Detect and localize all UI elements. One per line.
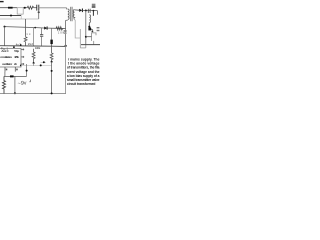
resistor R6 vertical bottom-left (3, 76, 6, 93)
label text mid under rail D (13, 46, 15, 48)
paragraph text block (67, 58, 100, 86)
IC pin bottom 2 (14, 67, 16, 72)
resistor R2 (56, 27, 63, 30)
svg-text:470k: 470k (14, 55, 19, 59)
node dot under R4 (33, 62, 35, 64)
svg-text:modulator u: modulator u (0, 55, 12, 59)
wire top right rail (82, 9, 97, 11)
wire step vertical x80 (79, 29, 81, 48)
wire transformer primary bottom down (66, 19, 68, 21)
transformer T1 secondary winding (73, 10, 74, 20)
wire step bottom (80, 47, 86, 49)
capacitor C1 (36, 5, 38, 11)
capacitor C2 vertical (41, 28, 43, 34)
node corner dot bottom (51, 92, 53, 94)
wire x93 drop (92, 11, 94, 16)
resistor R5 vertical (50, 46, 53, 61)
svg-text:circuit transformed: circuit transformed (67, 82, 96, 86)
node dot on rail B (10, 15, 12, 17)
wire rail C corner up (63, 27, 66, 29)
node dot on IC edge (20, 65, 22, 67)
wire rail A middle (23, 7, 27, 9)
IC pin right 1 (21, 48, 24, 50)
node dot under R5 (51, 61, 53, 63)
wire faint rail (0, 18, 39, 20)
input terminal stub top-left (0, 1, 4, 3)
wire rail A drop into transformer (67, 8, 68, 9)
relay K1 gray box (92, 4, 96, 8)
wire transformer secondary top right (75, 9, 79, 11)
node dot x40 (40, 64, 42, 66)
corner mark (29, 80, 30, 82)
node dot small (20, 44, 22, 46)
node dot x43 with stub (41, 61, 47, 63)
svg-text:100k: 100k (35, 46, 41, 50)
resistor R1 (27, 6, 34, 9)
wire transformer secondary bottom down (75, 20, 81, 38)
svg-text:Ant. C: Ant. C (1, 49, 9, 53)
wire x51 down to bottom rail (51, 62, 53, 94)
node dot on rail C (34, 27, 36, 29)
output jack J1 (92, 33, 96, 41)
node dot below C1 (38, 11, 40, 13)
diode D2 (79, 9, 82, 12)
node dot above Q1 (88, 26, 90, 28)
wire right ground rail (81, 44, 100, 46)
wire battery feed line (4, 72, 6, 77)
node junction dot (24, 7, 26, 9)
IC pin bottom 1 (4, 67, 6, 72)
wire rail B (0, 15, 21, 17)
arrow mark on rail A (8, 7, 13, 9)
transformer T1 primary winding (68, 9, 69, 19)
diode D1 (44, 27, 47, 30)
wire C1 node down (38, 11, 40, 19)
node dot x51 y71 (51, 70, 53, 72)
wire vertical x15 (14, 76, 16, 93)
wire rail A right to transformer (39, 7, 67, 9)
wire bottom rail (0, 93, 66, 95)
resistor R4 vertical (32, 49, 35, 62)
IC pin right 3 (21, 63, 24, 65)
wire x97 drop (96, 11, 98, 15)
wire to output jack (86, 36, 92, 38)
svg-text:1k: 1k (26, 32, 31, 36)
arrow mark on feed line (10, 75, 14, 77)
wire rail D (ground mid rail) (0, 45, 66, 48)
node dot rail C left end (4, 26, 6, 28)
wire vertical x66 transformer to rail D (65, 20, 67, 46)
node dot x66 on rail D (65, 45, 67, 47)
capacitor C4 plates (87, 9, 89, 13)
wire long vertical x86 (85, 11, 87, 45)
wire rail C (5, 27, 64, 29)
IC pin right 2 (21, 56, 24, 58)
svg-text:oscillator: oscillator (2, 62, 13, 66)
node dot x26 (26, 70, 28, 72)
resistor R3 vertical (24, 19, 27, 46)
node dot x15 bottom (14, 92, 16, 94)
svg-text:2k2: 2k2 (28, 42, 34, 46)
svg-text:~9v: ~9v (18, 80, 28, 87)
wire vertical from rail C left (4, 27, 6, 46)
wire right border vertical x66 (65, 45, 67, 94)
IC text row 1 (0, 49, 19, 66)
node dot x86 y37 (85, 36, 87, 38)
svg-text:10k: 10k (58, 30, 65, 34)
capacitor C3 electrolytic black body (51, 28, 53, 39)
svg-text:50p: 50p (14, 49, 19, 53)
wire top rail A left (0, 7, 17, 9)
wire vertical x26 (26, 64, 28, 76)
label marks right edge (97, 27, 100, 28)
component box S1 (17, 8, 23, 14)
transistor Q1 body (88, 27, 91, 30)
wire vertical x33 (33, 28, 35, 46)
wire faint lower bus (21, 65, 52, 67)
wire to capacitor (34, 7, 37, 9)
node dot x86 (85, 10, 87, 12)
svg-text:2n: 2n (14, 62, 17, 66)
inductor L1 vertical coil (89, 15, 90, 23)
label T1 (64, 30, 67, 32)
transformer T1 core (70, 7, 72, 21)
pin labels (6, 69, 8, 71)
IC box U1 (0, 48, 21, 67)
